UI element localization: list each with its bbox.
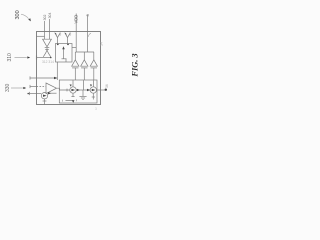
wire: I1 to node with arrowhead <box>48 92 57 94</box>
leader hook near top stub <box>88 33 91 37</box>
wire: Y split left arm <box>43 50 47 57</box>
diode D3 <box>90 60 97 66</box>
wire: I3 bottom stem <box>92 93 94 99</box>
wire: between current sources <box>76 89 90 91</box>
wire: stub from border to Q1 <box>37 35 45 37</box>
wire: VDD stub feeding diode D1 <box>75 14 77 53</box>
transistor Q2 (Y symbol) <box>55 33 61 44</box>
current source I1 (bottom-left circle) <box>41 93 47 99</box>
bar at arrow bottom <box>62 58 67 60</box>
wire: block bottom stem <box>65 59 67 62</box>
arrowhead into I3 <box>87 89 90 91</box>
current source I3 (right circle in block) <box>90 87 96 93</box>
wire: second top stub <box>87 15 89 53</box>
wire: stem to diode D2 <box>83 52 85 60</box>
tick crossing border <box>36 56 38 60</box>
wire: stem to diode D3 <box>93 52 95 60</box>
block 320 (inner top box) <box>56 44 73 63</box>
tick on stem <box>45 48 49 50</box>
transistor Q1 base bar <box>45 47 50 49</box>
transistor Q1 (down triangle) <box>43 39 52 47</box>
Q3 arrow <box>65 33 67 36</box>
wire: into I2 top <box>72 80 74 87</box>
svg-text:3: 3 <box>95 107 97 111</box>
wire: block 320 to bus elbow <box>72 47 76 49</box>
arrowhead on input 1 <box>54 77 58 80</box>
input terminal 3 <box>29 93 41 95</box>
svg-text:34: 34 <box>100 42 104 46</box>
wire: from block 320 down to lower block <box>56 62 58 80</box>
wire: horizontal bus over diodes <box>76 51 95 53</box>
label leader inside bottom box <box>66 100 75 102</box>
svg-text:8: 8 <box>69 33 71 37</box>
wire: into I3 top <box>92 80 94 87</box>
wire: ground stem upper <box>82 80 84 90</box>
leader arrowhead above I3 <box>90 84 92 86</box>
input terminal 2 (dashed to op-amp) <box>30 86 37 88</box>
wire: I1 bottom stem <box>44 99 46 105</box>
svg-text:36: 36 <box>105 84 109 88</box>
outer box (circuit boundary 300) <box>37 32 101 105</box>
wire: Y split right arm <box>47 50 51 57</box>
diode D2 <box>81 60 88 66</box>
Q2 arrow <box>55 33 57 36</box>
svg-text:8: 8 <box>59 33 61 37</box>
tick on output wire <box>66 89 68 92</box>
svg-text:312 314: 312 314 <box>42 60 54 64</box>
ground <box>82 90 84 96</box>
current source I2 (left circle in block) <box>70 87 76 93</box>
svg-text:VDD: VDD <box>74 15 79 24</box>
input terminal 1 <box>30 77 56 79</box>
node dot Q3 <box>67 43 69 45</box>
tick on I1 stem <box>43 100 47 102</box>
svg-text:304: 304 <box>48 13 52 19</box>
arrow inside block 320 <box>63 48 65 59</box>
arrowhead mid <box>77 89 80 91</box>
node dot on emitter rail <box>50 57 52 59</box>
wire: Q1 emitter stem <box>46 48 48 50</box>
block 340 (inner bottom box) <box>59 80 97 103</box>
diode D1 <box>74 52 76 60</box>
op-amp A1 <box>46 83 57 94</box>
wire: top stub into Q1a <box>44 21 46 39</box>
wire: emitter rail to border <box>37 57 52 59</box>
wire: top stub into Q1b <box>49 19 51 39</box>
node dot Q2 <box>57 43 59 45</box>
svg-text:FIG. 3: FIG. 3 <box>130 53 139 77</box>
svg-text:302: 302 <box>43 15 47 21</box>
output terminal dot <box>105 89 107 91</box>
wire: I2 bottom stem <box>72 93 74 97</box>
svg-text:310: 310 <box>7 53 13 62</box>
wire: output to terminal <box>97 89 106 91</box>
leader arrowhead above I2 <box>70 84 72 86</box>
transistor Q3 (Y symbol) <box>65 33 71 44</box>
svg-text:330: 330 <box>5 83 11 92</box>
svg-text:300: 300 <box>15 10 21 19</box>
tiny ticks inside bottom box <box>62 100 64 102</box>
wire: op-amp output to current source <box>57 88 70 90</box>
